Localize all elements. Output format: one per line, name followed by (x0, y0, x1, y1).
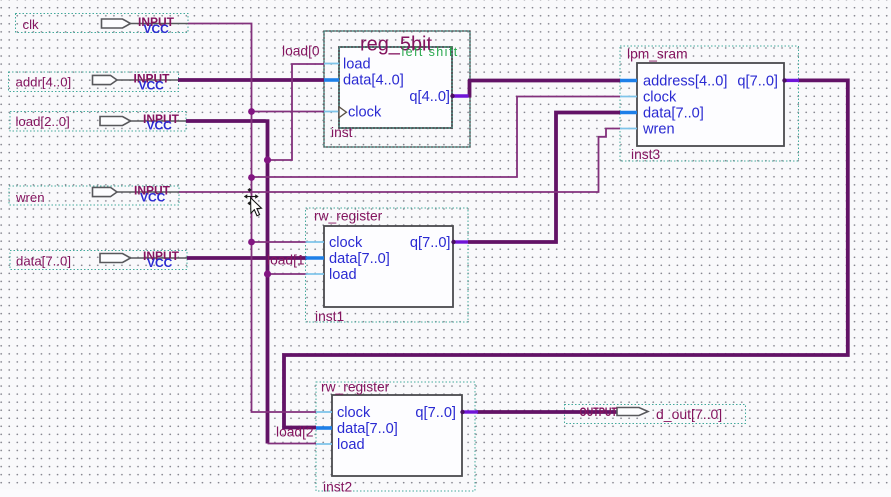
svg-text:VCC: VCC (140, 191, 166, 205)
svg-text:load[1: load[1 (267, 253, 305, 268)
svg-text:q[4..0]: q[4..0] (409, 89, 450, 105)
svg-text:data[7..0]: data[7..0] (643, 105, 704, 121)
svg-text:load[0: load[0 (282, 44, 320, 59)
svg-text:load: load (337, 437, 365, 453)
svg-text:inst: inst (331, 125, 353, 140)
svg-text:wren: wren (15, 190, 45, 205)
svg-text:rw_register: rw_register (321, 380, 390, 395)
svg-text:clock: clock (348, 104, 382, 120)
svg-text:inst2: inst2 (323, 480, 352, 495)
svg-text:wren: wren (642, 121, 675, 137)
svg-text:inst1: inst1 (315, 309, 344, 324)
svg-text:q[7..0]: q[7..0] (737, 73, 778, 89)
svg-text:data[7..0]: data[7..0] (337, 421, 398, 437)
svg-text:clk: clk (23, 17, 40, 32)
svg-text:load: load (329, 267, 357, 283)
svg-text:load[2: load[2 (276, 425, 314, 440)
svg-text:VCC: VCC (147, 256, 173, 270)
svg-text:left shift: left shift (402, 45, 459, 59)
svg-text:inst3: inst3 (631, 147, 660, 162)
svg-text:address[4..0]: address[4..0] (643, 73, 727, 89)
svg-text:load: load (343, 57, 371, 73)
svg-text:VCC: VCC (139, 79, 165, 93)
svg-text:q[7..0]: q[7..0] (410, 235, 451, 251)
svg-text:OUTPUT: OUTPUT (580, 405, 618, 419)
svg-text:q[7..0]: q[7..0] (415, 405, 456, 421)
svg-text:addr[4..0]: addr[4..0] (16, 75, 72, 90)
svg-text:clock: clock (643, 89, 677, 105)
svg-text:lpm_sram: lpm_sram (627, 46, 688, 61)
svg-text:data[4..0]: data[4..0] (343, 73, 404, 89)
svg-text:clock: clock (329, 235, 363, 251)
svg-text:VCC: VCC (144, 22, 170, 36)
svg-text:d_out[7..0]: d_out[7..0] (656, 406, 722, 422)
svg-text:VCC: VCC (147, 119, 173, 133)
svg-text:data[7..0]: data[7..0] (329, 251, 390, 267)
svg-text:clock: clock (337, 405, 371, 421)
svg-text:data[7..0]: data[7..0] (16, 254, 71, 269)
svg-text:rw_register: rw_register (314, 209, 383, 224)
svg-text:load[2..0]: load[2..0] (16, 114, 70, 129)
